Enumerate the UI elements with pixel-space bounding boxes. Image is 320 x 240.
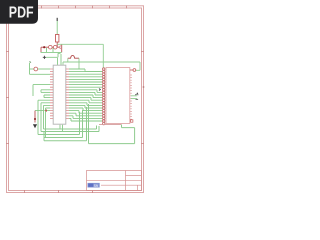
top right pin circle — [133, 69, 136, 72]
wire L y84 — [33, 85, 50, 96]
bottom right pin — [131, 120, 133, 122]
junction dot gnd — [34, 118, 36, 120]
diode D1 circle — [49, 45, 53, 49]
connector top right pin — [130, 69, 133, 71]
PDF badge — [0, 0, 38, 24]
pin circle component — [34, 67, 38, 71]
wire green hump drops — [68, 58, 85, 71]
frame inner border — [9, 8, 142, 191]
wire pin0 — [69, 69, 102, 72]
wire L y91.5 — [41, 91, 50, 93]
wire pin5 — [69, 81, 102, 83]
net label tick left — [30, 62, 32, 63]
wire left drop x41b — [41, 103, 50, 132]
wire pin6 — [69, 84, 102, 86]
wire green y57 — [46, 53, 61, 57]
wire pin19 stair — [69, 118, 102, 121]
frame section ticks top — [6, 6, 144, 194]
wire circle to IC pin1 — [38, 68, 50, 70]
connector pad circles — [103, 68, 105, 125]
ferrite bead hump — [68, 55, 79, 58]
title block row line 2 — [101, 184, 142, 186]
wire resistor bottom — [56, 42, 58, 47]
ground symbol — [33, 124, 37, 128]
wire y108 stub — [46, 108, 51, 138]
wire green h y52.4 — [41, 51, 62, 53]
wire pin17 stair — [69, 113, 102, 116]
wire pin18 stair — [69, 116, 102, 119]
wire pin14 stair — [69, 105, 102, 108]
wire green IC top pins — [58, 54, 62, 65]
wire green top bus y44 — [57, 44, 103, 67]
wire pin8 stair — [69, 90, 102, 93]
wire green left drop x29 — [30, 63, 51, 75]
wire red horizontal chain — [41, 46, 59, 48]
wire green bottom bus 4 — [44, 110, 83, 138]
frame section ticks left — [6, 52, 9, 144]
wire green bottom right loop — [89, 125, 135, 144]
title block column line — [125, 171, 127, 191]
transistor curve — [59, 46, 62, 49]
wire left drop x38 — [38, 100, 50, 134]
wire pin4 — [69, 78, 102, 80]
wire L y89 — [41, 90, 50, 93]
wire green long bus y62 — [63, 61, 140, 63]
wire green x88 riser — [88, 104, 90, 144]
cadsoft logo — [88, 183, 100, 188]
wire green bottom bus 1 — [44, 126, 97, 130]
wire green drop a — [46, 48, 48, 52]
wire green left bottom verticals — [43, 132, 45, 141]
wire pin12 stair — [69, 100, 102, 103]
wire vcc to resistor — [56, 21, 58, 35]
wire left drop x43 — [44, 105, 51, 129]
IC1 body — [53, 65, 66, 124]
frame outer border — [7, 6, 144, 193]
right bundle straight wires — [60, 69, 102, 132]
wire green y111 — [35, 110, 50, 112]
wire pin10 stair — [69, 95, 102, 98]
wire pin13 stair — [69, 103, 102, 106]
shield wires double green — [131, 96, 137, 99]
diode arrow red — [45, 109, 48, 112]
wire green bottom bus 2 — [41, 126, 99, 132]
wire pin2 — [69, 73, 102, 75]
frame section ticks right — [141, 52, 144, 144]
IC1 right pin stubs — [66, 69, 69, 118]
frame section ticks bottom — [25, 190, 93, 193]
shield arrow symbol — [135, 93, 138, 100]
transistor collector red — [61, 45, 63, 53]
junction dot — [43, 46, 45, 48]
wire pin11 stair — [69, 98, 102, 101]
wire green drop b — [52, 48, 54, 52]
wire green bottom bus 3 — [38, 112, 80, 135]
wire pin9 stair — [69, 92, 102, 95]
supply symbol VCC — [56, 18, 58, 21]
wire green to circle — [30, 68, 34, 70]
title block right column row — [126, 175, 142, 177]
wire red gnd drop — [34, 111, 36, 123]
junction dark left of pads — [99, 89, 101, 91]
wire pin15 stair — [69, 108, 102, 111]
wire L y94 — [44, 95, 50, 98]
connector X1 body — [106, 68, 130, 124]
wire green bottom bus 5 — [44, 107, 87, 141]
wire red left drop — [40, 47, 42, 52]
wire red connector bottom — [99, 124, 122, 126]
resistor R1 — [56, 35, 59, 43]
wire green IC top to bus — [62, 62, 64, 65]
wire pin1 — [69, 71, 102, 73]
title block outline — [87, 171, 142, 191]
wire pin16 stair — [69, 111, 102, 114]
wire pin3 — [69, 76, 102, 78]
svg-text:Sft: Sft — [94, 184, 98, 188]
IC bottom stubs — [60, 125, 63, 132]
title block right sub divider — [137, 185, 139, 190]
wire green right loop — [136, 62, 140, 70]
connector right pin stubs — [130, 75, 132, 119]
svg-text:PDF: PDF — [9, 5, 34, 22]
frame pin dot right — [143, 86, 145, 88]
title block row line 1 — [87, 180, 142, 182]
ground cross symbol — [43, 56, 46, 59]
wire pin7 — [69, 86, 102, 88]
IC1 left pin stubs — [50, 69, 53, 118]
left bundle nested wires — [33, 85, 50, 138]
diode D2 circle — [53, 45, 57, 49]
